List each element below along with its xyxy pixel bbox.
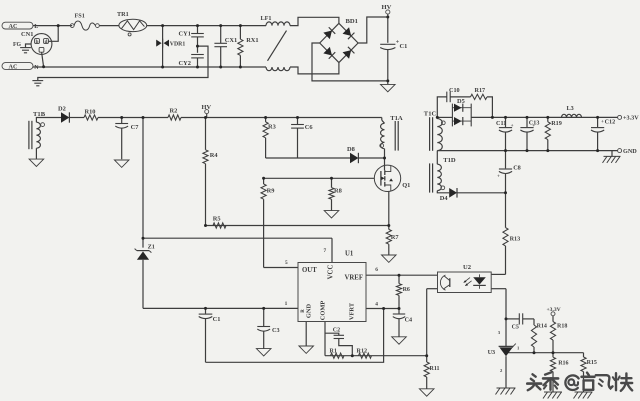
svg-text:R15: R15 (587, 360, 597, 366)
svg-text:R6: R6 (403, 287, 410, 293)
svg-text:T1A: T1A (390, 115, 403, 122)
svg-text:R5: R5 (213, 216, 221, 223)
svg-text:+3.3V: +3.3V (623, 115, 639, 122)
svg-text:R18: R18 (557, 324, 567, 330)
svg-text:R12: R12 (357, 347, 368, 354)
svg-text:C10: C10 (449, 87, 460, 94)
svg-text:Z1: Z1 (148, 243, 155, 250)
svg-text:CY2: CY2 (179, 60, 191, 67)
svg-text:CX1: CX1 (225, 37, 237, 44)
svg-text:R9: R9 (267, 188, 275, 195)
svg-text:U1: U1 (345, 251, 354, 258)
svg-text:BD1: BD1 (346, 18, 358, 25)
svg-text:U3: U3 (488, 349, 496, 356)
svg-text:R14: R14 (537, 324, 547, 330)
svg-text:LF1: LF1 (261, 15, 272, 22)
svg-text:C11: C11 (496, 120, 506, 127)
svg-text:R13: R13 (510, 236, 521, 243)
svg-text:FG: FG (13, 42, 22, 48)
svg-text:+3.3V: +3.3V (547, 307, 561, 313)
svg-text:C5: C5 (512, 325, 519, 331)
svg-text:C8: C8 (513, 165, 521, 172)
svg-text:R2: R2 (170, 107, 178, 114)
svg-text:C6: C6 (305, 124, 314, 131)
svg-text:T1B: T1B (33, 111, 46, 118)
svg-text:R11: R11 (430, 366, 440, 372)
svg-text:D8: D8 (347, 146, 355, 153)
svg-text:7: 7 (324, 248, 327, 254)
svg-text:R1: R1 (330, 348, 337, 354)
svg-text:U2: U2 (463, 264, 472, 271)
svg-text:C1: C1 (213, 316, 221, 323)
svg-text:D5: D5 (457, 98, 465, 105)
svg-text:VREF: VREF (344, 274, 363, 281)
svg-text:R19: R19 (551, 120, 562, 127)
svg-text:R4: R4 (210, 152, 219, 159)
svg-text:+: + (511, 123, 514, 129)
svg-text:b: b (36, 40, 39, 45)
svg-text:GND: GND (623, 148, 637, 155)
svg-text:HV: HV (382, 4, 392, 11)
svg-text:+: + (601, 119, 604, 125)
svg-text:D4: D4 (440, 195, 449, 202)
svg-text:CY1: CY1 (179, 30, 191, 37)
svg-text:R16: R16 (558, 361, 568, 367)
svg-text:T1C: T1C (424, 111, 437, 118)
svg-text:CN1: CN1 (21, 31, 33, 38)
svg-text:N: N (34, 65, 39, 71)
svg-text:RX1: RX1 (246, 37, 258, 44)
svg-text:5: 5 (285, 260, 288, 266)
svg-text:VCC: VCC (328, 265, 335, 280)
svg-text:d: d (45, 40, 48, 45)
svg-text:COMP: COMP (320, 301, 327, 321)
svg-text:HV: HV (202, 104, 212, 111)
svg-text:R10: R10 (85, 109, 96, 116)
svg-text:R3: R3 (268, 124, 276, 131)
svg-text:Q1: Q1 (402, 182, 410, 189)
svg-text:VDR1: VDR1 (170, 42, 186, 48)
svg-text:+: + (532, 123, 535, 129)
svg-text:+: + (497, 174, 500, 180)
svg-text:4: 4 (375, 301, 378, 307)
svg-text:VFRT: VFRT (349, 302, 356, 320)
svg-text:C7: C7 (131, 124, 140, 131)
svg-text:L: L (34, 24, 38, 30)
svg-text:R17: R17 (475, 87, 486, 94)
svg-text:C12: C12 (605, 119, 616, 126)
svg-text:C1: C1 (400, 43, 408, 50)
svg-text:R7: R7 (391, 234, 400, 241)
svg-text:1: 1 (285, 301, 288, 307)
svg-text:L3: L3 (567, 105, 574, 112)
svg-text:GND: GND (306, 304, 313, 319)
svg-text:OUT: OUT (302, 267, 317, 274)
svg-text:C3: C3 (272, 327, 280, 334)
svg-text:C2: C2 (333, 328, 340, 334)
svg-text:TR1: TR1 (117, 11, 129, 18)
svg-text:T1D: T1D (443, 157, 456, 164)
svg-text:R8: R8 (334, 188, 342, 195)
svg-text:AC: AC (9, 23, 18, 30)
svg-text:6: 6 (375, 267, 378, 273)
svg-text:AC: AC (9, 63, 18, 70)
svg-text:FS1: FS1 (75, 12, 85, 19)
svg-text:C4: C4 (405, 317, 413, 324)
svg-text:D2: D2 (58, 105, 66, 112)
